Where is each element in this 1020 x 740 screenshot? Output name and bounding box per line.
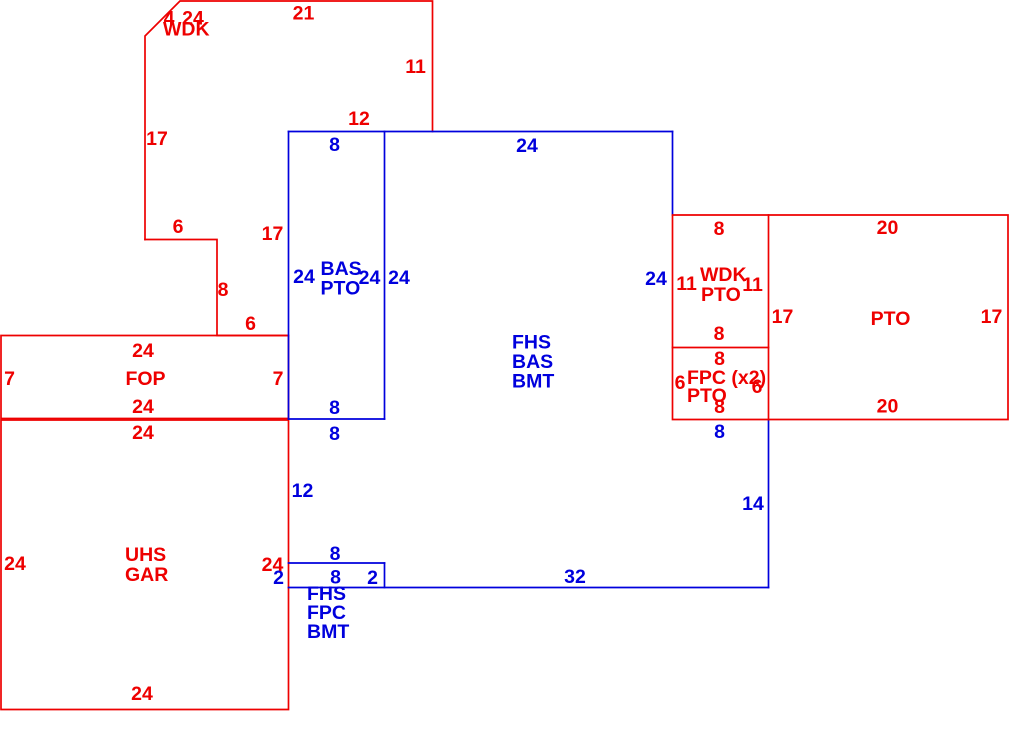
svg-text:24: 24 <box>516 135 538 157</box>
wire FOP rectangle <box>1 336 289 419</box>
svg-text:11: 11 <box>676 273 697 295</box>
svg-text:8: 8 <box>329 134 340 156</box>
svg-text:2: 2 <box>273 567 284 589</box>
svg-text:24: 24 <box>132 396 154 418</box>
svg-text:7: 7 <box>273 368 284 390</box>
wire BAS PTO strip right edge <box>384 132 386 420</box>
svg-text:GAR: GAR <box>125 564 168 586</box>
wire WDK outline left/top/right <box>145 1 433 240</box>
svg-text:8: 8 <box>714 218 725 240</box>
svg-text:8: 8 <box>329 423 340 445</box>
svg-text:8: 8 <box>714 421 725 443</box>
wire BAS PTO strip left edge <box>288 132 290 420</box>
svg-text:8: 8 <box>714 396 725 418</box>
svg-text:BMT: BMT <box>512 371 554 393</box>
svg-text:PTO: PTO <box>321 278 361 300</box>
svg-text:32: 32 <box>564 566 586 588</box>
svg-text:8: 8 <box>714 323 725 345</box>
svg-text:PTO: PTO <box>871 308 911 330</box>
svg-text:24: 24 <box>359 267 381 289</box>
svg-text:8: 8 <box>329 397 340 419</box>
wire FHS FPC BMT box top <box>289 562 385 564</box>
svg-text:8: 8 <box>218 279 229 301</box>
svg-text:17: 17 <box>146 128 168 150</box>
wire red patio left column divider <box>673 347 769 349</box>
svg-text:2: 2 <box>367 567 378 589</box>
svg-text:12: 12 <box>348 108 370 130</box>
wire blue top edge <box>289 131 673 133</box>
svg-text:6: 6 <box>173 216 184 238</box>
svg-text:24: 24 <box>132 422 154 444</box>
svg-text:17: 17 <box>772 306 794 328</box>
svg-text:6: 6 <box>675 372 686 394</box>
svg-text:WDK: WDK <box>700 264 747 286</box>
wire WDK lower step <box>145 240 289 336</box>
svg-text:24: 24 <box>131 683 153 705</box>
svg-text:11: 11 <box>405 56 426 78</box>
svg-text:14: 14 <box>742 493 764 515</box>
svg-text:BMT: BMT <box>307 621 349 643</box>
wire blue right edge upper segment <box>672 132 674 216</box>
svg-text:20: 20 <box>877 217 899 239</box>
svg-text:24: 24 <box>388 267 410 289</box>
wire BAS PTO strip bottom edge <box>289 418 385 420</box>
svg-text:17: 17 <box>981 306 1003 328</box>
svg-text:6: 6 <box>245 313 256 335</box>
svg-text:6: 6 <box>752 376 763 398</box>
svg-text:20: 20 <box>877 396 899 418</box>
svg-text:12: 12 <box>292 480 314 502</box>
svg-text:24: 24 <box>645 268 667 290</box>
svg-text:FOP: FOP <box>125 368 165 390</box>
svg-text:UHS: UHS <box>125 544 166 566</box>
wire blue lower right edge <box>768 420 770 588</box>
svg-text:WDK: WDK <box>163 19 210 41</box>
svg-text:24: 24 <box>293 266 315 288</box>
svg-text:PTO: PTO <box>701 284 741 306</box>
svg-text:17: 17 <box>262 223 284 245</box>
svg-text:24: 24 <box>4 553 26 575</box>
wire red patio divider vertical <box>768 215 770 420</box>
svg-text:24: 24 <box>132 340 154 362</box>
svg-text:7: 7 <box>4 368 15 390</box>
wire UHS GAR rectangle <box>1 420 289 710</box>
svg-text:8: 8 <box>330 543 341 565</box>
wire blue bottom edge <box>289 587 769 589</box>
wire FHS FPC BMT box right <box>384 563 386 588</box>
wire red patio outer rectangle <box>673 215 1009 420</box>
svg-text:21: 21 <box>293 3 315 25</box>
svg-text:11: 11 <box>742 274 763 296</box>
